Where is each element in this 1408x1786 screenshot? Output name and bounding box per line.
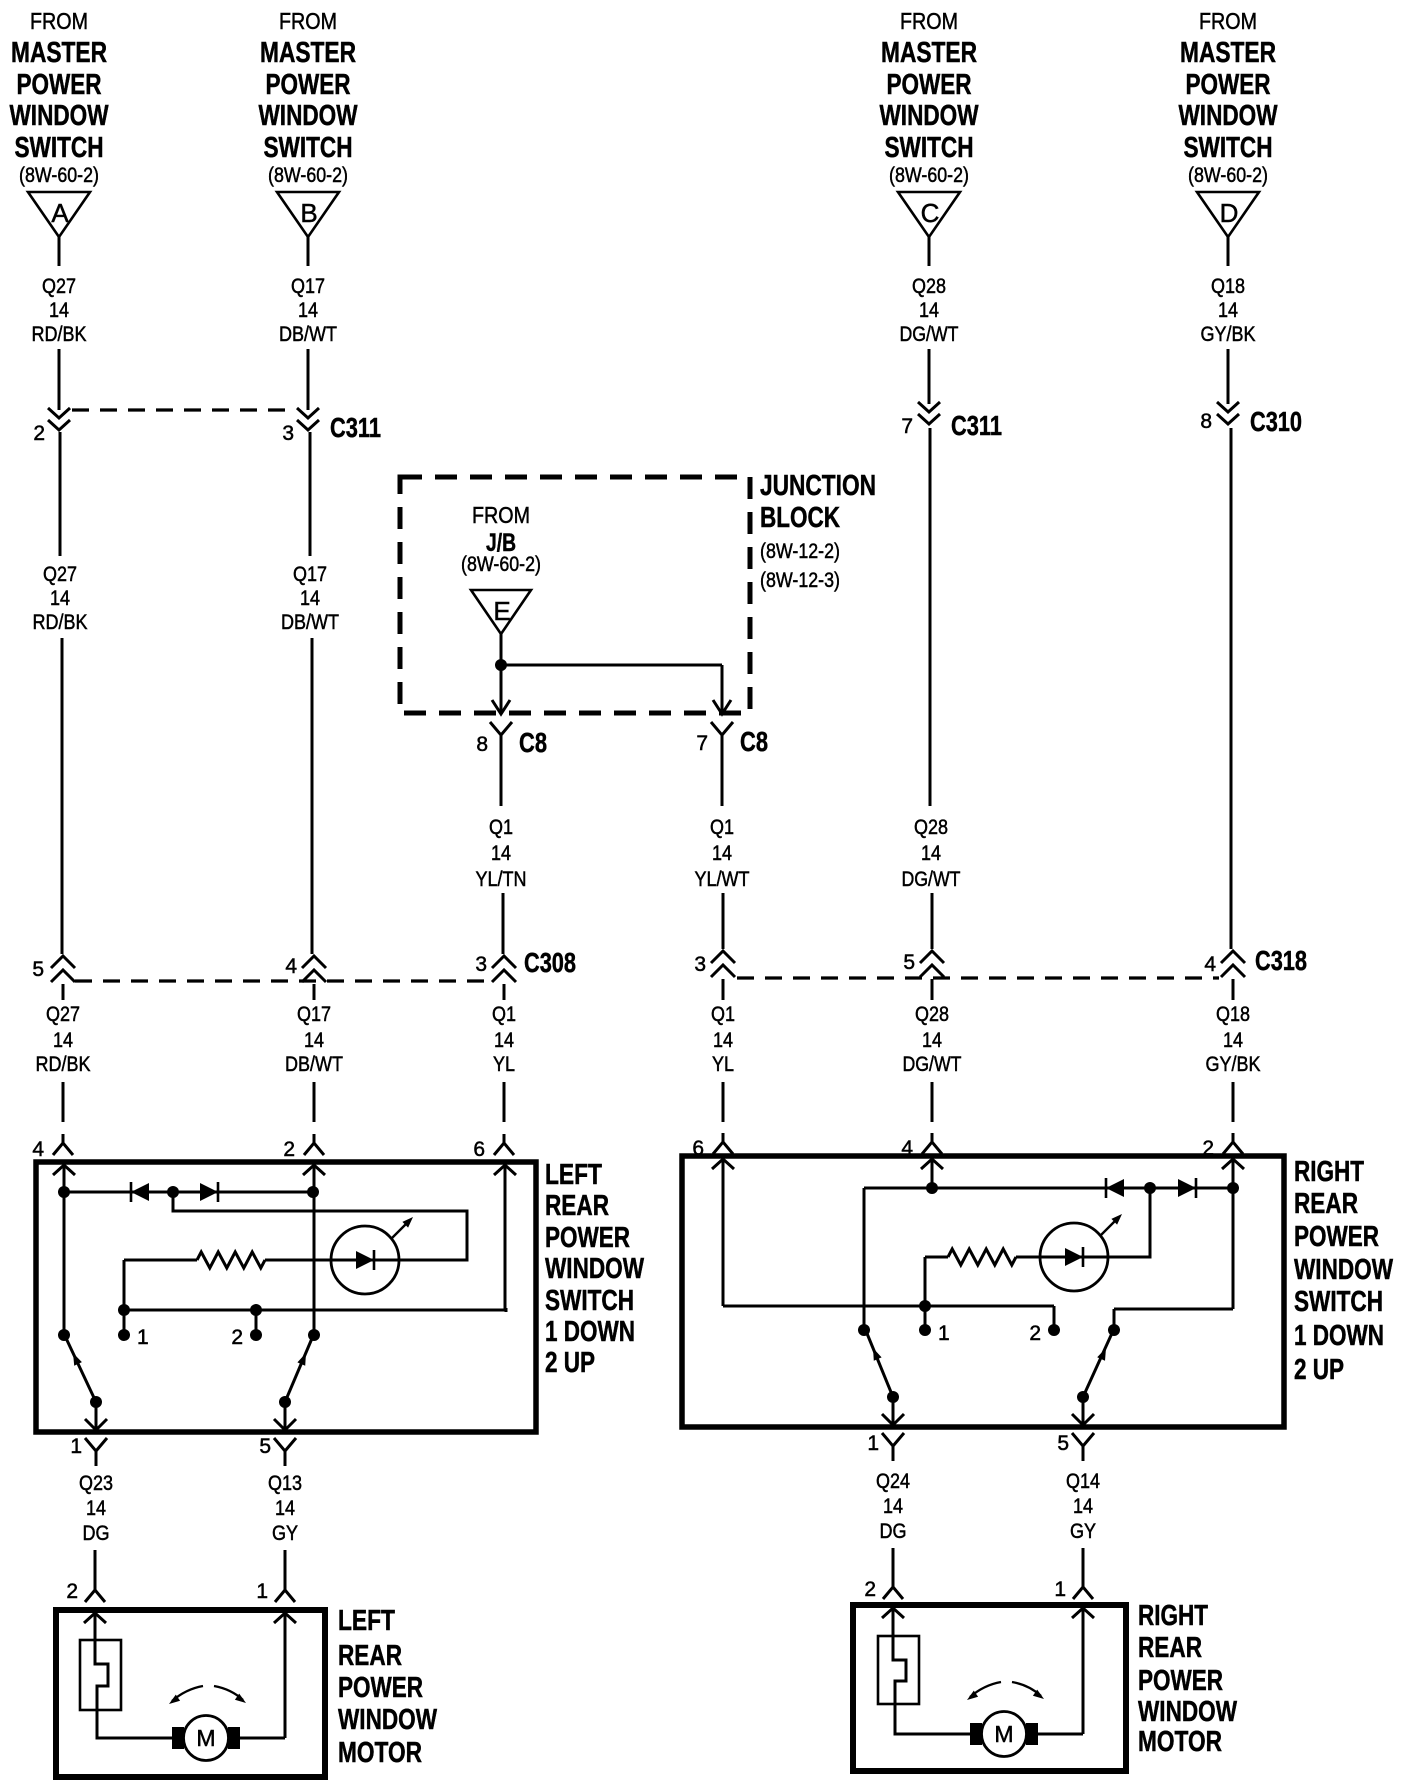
svg-text:DG: DG	[880, 1520, 907, 1543]
svg-text:B: B	[300, 198, 317, 228]
arrow into switch at x=314	[303, 1165, 325, 1175]
svg-text:WINDOW: WINDOW	[1179, 100, 1278, 132]
label RIGHT REAR POWER WINDOW SWITCH 1 DOWN 2 UP	[1294, 1156, 1393, 1386]
connector pin 5 below right switch	[1057, 1432, 1094, 1461]
switch pivot dot up (right)	[1108, 1324, 1120, 1336]
svg-text:Q13: Q13	[268, 1472, 302, 1495]
label Q1 14 YL	[492, 1003, 516, 1076]
svg-text:14: 14	[921, 842, 941, 865]
svg-text:RIGHT: RIGHT	[1138, 1600, 1208, 1632]
arrow into switch at x=505	[494, 1165, 516, 1175]
circuit breaker CB1 outline	[80, 1640, 121, 1710]
contact 2 dot	[250, 1329, 262, 1341]
svg-text:14: 14	[1223, 1029, 1243, 1052]
off-page connector triangle B	[277, 192, 339, 237]
junction block dashed outline	[400, 477, 750, 713]
svg-text:(8W-60-2): (8W-60-2)	[19, 164, 99, 187]
svg-text:FROM: FROM	[1199, 8, 1257, 34]
svg-text:WINDOW: WINDOW	[1138, 1696, 1237, 1728]
motor pin 2 connector	[66, 1580, 105, 1603]
contact bus wire (right)	[723, 1305, 1054, 1308]
svg-text:C: C	[921, 198, 940, 228]
wire pin2 vertical (right)	[1232, 1161, 1235, 1309]
right motor pin 1 connector	[1054, 1578, 1093, 1601]
svg-text:M: M	[196, 1725, 215, 1751]
connector pin 1 below right switch	[867, 1432, 904, 1461]
svg-text:MOTOR: MOTOR	[1138, 1726, 1222, 1758]
contact 1 stub (right)	[924, 1306, 927, 1326]
wire Q28 below connector	[931, 979, 934, 1000]
diode D1 (pointing left)	[131, 1182, 149, 1202]
arm dot S1	[90, 1396, 102, 1408]
svg-text:4: 4	[285, 955, 297, 978]
wire motor to pin 1	[240, 1737, 285, 1740]
arrow out of box pin 5	[274, 1419, 296, 1430]
svg-text:Q1: Q1	[711, 1003, 735, 1026]
switch pivot dot down (right)	[858, 1324, 870, 1336]
svg-text:14: 14	[491, 842, 511, 865]
motor pin 1 connector	[256, 1580, 295, 1603]
svg-text:Q1: Q1	[710, 816, 734, 839]
svg-text:14: 14	[494, 1029, 514, 1052]
svg-text:DG/WT: DG/WT	[900, 323, 959, 346]
svg-text:YL/WT: YL/WT	[695, 868, 750, 891]
svg-text:Q24: Q24	[876, 1470, 910, 1493]
resistor R2	[948, 1249, 1016, 1265]
svg-text:POWER: POWER	[887, 69, 972, 101]
arrow into right switch at x=723	[712, 1159, 734, 1169]
wire Q18 to switch pin 2	[1232, 1082, 1235, 1122]
wire resistor right lead	[1016, 1256, 1040, 1259]
diode D4 (pointing right)	[1178, 1178, 1196, 1198]
svg-text:3: 3	[694, 953, 706, 976]
motor M2 body	[982, 1712, 1027, 1757]
wire pin4 vertical (right)	[931, 1161, 934, 1188]
svg-text:WINDOW: WINDOW	[259, 100, 358, 132]
svg-text:YL: YL	[493, 1053, 515, 1076]
label Q14 14 GY	[1066, 1470, 1100, 1543]
label Q28 14 DG/WT	[902, 816, 961, 891]
svg-text:4: 4	[1204, 953, 1216, 976]
wire S2 to pin 5	[284, 1402, 287, 1430]
svg-text:A: A	[51, 198, 69, 228]
svg-text:(8W-60-2): (8W-60-2)	[461, 553, 541, 576]
wire node to C8 pin 7	[501, 664, 722, 667]
svg-text:FROM: FROM	[30, 8, 88, 34]
wire Q28 below C311	[929, 428, 932, 806]
wire Q24 to motor	[892, 1548, 895, 1578]
svg-text:14: 14	[712, 842, 732, 865]
svg-text:LEFT: LEFT	[545, 1159, 602, 1191]
svg-text:SWITCH: SWITCH	[15, 132, 104, 164]
connector C308 pin 4	[285, 955, 326, 982]
junction dot contact 2	[250, 1304, 262, 1316]
switch arm S2 (up)	[285, 1336, 313, 1402]
indicator lamp circle (right)	[1040, 1223, 1108, 1291]
svg-text:Q27: Q27	[42, 275, 76, 298]
wire from triangle D	[1227, 237, 1230, 266]
arm dot S4	[1077, 1391, 1089, 1403]
label Q24 14 DG	[876, 1470, 910, 1543]
svg-text:14: 14	[1218, 299, 1238, 322]
arrow out of box pin 5 (right)	[1072, 1414, 1094, 1425]
svg-text:14: 14	[304, 1029, 324, 1052]
wire Q1 YL/WT	[721, 750, 724, 806]
label Q17 14 DB/WT	[279, 275, 337, 346]
wire diode node to lamp (right)	[1108, 1192, 1150, 1257]
wire pin6 vertical (right)	[722, 1161, 725, 1306]
connector pin 1 below switch	[70, 1435, 107, 1466]
svg-text:Q17: Q17	[293, 563, 327, 586]
svg-text:REAR: REAR	[545, 1190, 609, 1222]
wire Q27 below C311	[59, 432, 62, 556]
svg-text:7: 7	[901, 415, 913, 438]
svg-text:Q28: Q28	[915, 1003, 949, 1026]
svg-text:14: 14	[275, 1497, 295, 1520]
arrow into right motor box pin 2	[882, 1608, 904, 1618]
wire motor to pin 1 (right)	[1038, 1733, 1083, 1736]
svg-text:Q1: Q1	[492, 1003, 516, 1026]
svg-text:GY: GY	[272, 1522, 298, 1545]
circuit breaker element wire (right)	[893, 1609, 971, 1734]
svg-text:DG: DG	[83, 1522, 110, 1545]
junction dot contact 1	[118, 1304, 130, 1316]
svg-text:4: 4	[32, 1138, 44, 1161]
svg-text:GY: GY	[1070, 1520, 1096, 1543]
svg-text:RD/BK: RD/BK	[33, 611, 88, 634]
wire Q27 below connector	[62, 984, 65, 1000]
indicator lamp circle	[331, 1226, 399, 1294]
svg-text:DB/WT: DB/WT	[285, 1053, 343, 1076]
svg-text:Q14: Q14	[1066, 1470, 1100, 1493]
svg-text:RD/BK: RD/BK	[36, 1053, 91, 1076]
svg-text:YL: YL	[712, 1053, 734, 1076]
svg-text:C318: C318	[1255, 945, 1307, 976]
label Q27 14 RD/BK	[32, 275, 87, 346]
svg-text:REAR: REAR	[1294, 1188, 1358, 1220]
motor rotation arrows	[169, 1686, 246, 1704]
svg-text:3: 3	[475, 953, 487, 976]
connector C310 pin 8 (column D)	[1200, 402, 1302, 437]
junction dot between diodes (right)	[1144, 1182, 1156, 1194]
motor brush right (right)	[1026, 1723, 1038, 1745]
label Q1 14 YL/WT	[695, 816, 750, 891]
resistor R1	[197, 1252, 265, 1268]
svg-text:5: 5	[1057, 1432, 1069, 1455]
off-page connector triangle C	[898, 192, 960, 237]
svg-text:Q27: Q27	[46, 1003, 80, 1026]
svg-text:C310: C310	[1250, 406, 1302, 437]
svg-text:C311: C311	[330, 412, 381, 443]
wire Q17 to switch pin 2	[313, 1082, 316, 1122]
arrow out of box pin 1	[85, 1419, 107, 1430]
connector C318 pin 3	[694, 951, 735, 977]
wire from E to node	[500, 634, 503, 712]
connector C8 pin 7	[696, 722, 768, 757]
switch arm S1 (down)	[65, 1336, 96, 1402]
svg-text:Q18: Q18	[1216, 1003, 1250, 1026]
svg-text:8: 8	[1200, 410, 1212, 433]
svg-text:MOTOR: MOTOR	[338, 1737, 422, 1769]
junction dot contact 1 (right)	[919, 1300, 931, 1312]
lamp arrow (right)	[1100, 1214, 1122, 1236]
connector C311 pin 2 (column A)	[33, 408, 70, 445]
wire Q1 YL/WT to C318	[722, 893, 725, 949]
svg-text:2: 2	[66, 1580, 78, 1603]
label FROM J/B (8W-60-2)	[461, 502, 541, 576]
svg-text:1 DOWN: 1 DOWN	[545, 1316, 635, 1348]
switch pin 4 connector	[32, 1134, 73, 1161]
svg-text:SWITCH: SWITCH	[1184, 132, 1273, 164]
arrow into right switch at x=1233	[1222, 1159, 1244, 1169]
svg-text:2: 2	[283, 1138, 295, 1161]
svg-text:14: 14	[50, 587, 70, 610]
wire Q18 into connector	[1227, 349, 1230, 404]
svg-text:3: 3	[282, 422, 294, 445]
svg-text:14: 14	[713, 1029, 733, 1052]
svg-text:5: 5	[903, 951, 915, 974]
svg-text:5: 5	[259, 1435, 271, 1458]
svg-text:C308: C308	[524, 947, 576, 978]
svg-text:POWER: POWER	[1294, 1221, 1379, 1253]
wire Q1 to switch pin 6	[722, 1082, 725, 1122]
svg-text:2: 2	[1029, 1322, 1041, 1345]
wire from triangle A	[58, 237, 61, 266]
svg-text:Q17: Q17	[291, 275, 325, 298]
switch pivot dot (down side)	[58, 1329, 70, 1341]
wire pin2 jog to pivot	[1114, 1308, 1233, 1311]
svg-text:YL/TN: YL/TN	[476, 868, 527, 891]
svg-text:14: 14	[919, 299, 939, 322]
svg-text:1: 1	[938, 1322, 950, 1345]
svg-text:POWER: POWER	[338, 1672, 423, 1704]
diode D3 (pointing left)	[1106, 1178, 1124, 1198]
connector C308 pin 3	[475, 947, 576, 982]
svg-text:2 UP: 2 UP	[1294, 1354, 1344, 1386]
svg-text:SWITCH: SWITCH	[1294, 1286, 1383, 1318]
wire Q18 down to C318	[1230, 428, 1233, 949]
svg-text:(8W-60-2): (8W-60-2)	[268, 164, 348, 187]
svg-text:(8W-12-3): (8W-12-3)	[760, 569, 840, 592]
wire resistor left lead	[925, 1256, 948, 1259]
switch arm S3 (down)	[866, 1331, 893, 1397]
svg-text:C8: C8	[740, 726, 768, 757]
svg-text:REAR: REAR	[338, 1640, 402, 1672]
arm dot S3	[887, 1391, 899, 1403]
node B: FROM MASTER POWER WINDOW SWITCH (8W-60-2)	[259, 8, 358, 187]
label JUNCTION BLOCK (8W-12-2) (8W-12-3)	[760, 470, 876, 592]
motor brush left (right)	[970, 1723, 982, 1745]
svg-text:1: 1	[867, 1432, 879, 1455]
arm dot S2	[279, 1396, 291, 1408]
wire pin6 vertical	[504, 1167, 507, 1310]
lamp diode symbol (right)	[1040, 1247, 1108, 1267]
wire Q27 into connector	[58, 349, 61, 410]
svg-text:JUNCTION: JUNCTION	[760, 470, 876, 502]
label Q1 14 YL/TN	[476, 816, 527, 891]
label Q18 14 GY/BK	[1206, 1003, 1261, 1076]
dashed connector line C318	[737, 976, 1219, 979]
contact 1 dot (right)	[919, 1324, 931, 1336]
label Q13 14 GY	[268, 1472, 302, 1545]
svg-text:1 DOWN: 1 DOWN	[1294, 1320, 1384, 1352]
switch pin 2 connector	[283, 1134, 324, 1161]
svg-text:M: M	[994, 1721, 1013, 1747]
switch pivot dot (up side)	[308, 1329, 320, 1341]
svg-text:14: 14	[922, 1029, 942, 1052]
svg-text:GY/BK: GY/BK	[1206, 1053, 1261, 1076]
svg-text:2 UP: 2 UP	[545, 1347, 595, 1379]
junction node dot	[495, 659, 507, 671]
svg-text:Q17: Q17	[297, 1003, 331, 1026]
node A: FROM MASTER POWER WINDOW SWITCH (8W-60-2)	[10, 8, 109, 187]
label LEFT REAR POWER WINDOW SWITCH 1 DOWN 2 UP	[545, 1159, 644, 1379]
contact 1 dot	[118, 1329, 130, 1341]
svg-text:DB/WT: DB/WT	[281, 611, 339, 634]
off-page connector triangle E	[471, 590, 531, 634]
wire Q17 below C311	[309, 432, 312, 556]
svg-text:MASTER: MASTER	[11, 37, 107, 69]
switch pin 2 connector	[1202, 1133, 1243, 1160]
svg-text:(8W-12-2): (8W-12-2)	[760, 540, 840, 563]
wire S1 to pin 1	[95, 1402, 98, 1430]
svg-text:1: 1	[256, 1580, 268, 1603]
svg-text:POWER: POWER	[1186, 69, 1271, 101]
wire pin4 vertical	[63, 1167, 66, 1335]
connector C311 pin 7 (column C)	[901, 402, 1002, 441]
svg-text:BLOCK: BLOCK	[760, 502, 840, 534]
svg-text:RD/BK: RD/BK	[32, 323, 87, 346]
junction dot pin2 (right)	[1227, 1182, 1239, 1194]
svg-text:Q18: Q18	[1211, 275, 1245, 298]
svg-text:POWER: POWER	[266, 69, 351, 101]
wire pin2 vertical	[313, 1167, 316, 1335]
wire Q1 to switch pin 6	[503, 1082, 506, 1122]
svg-text:POWER: POWER	[17, 69, 102, 101]
svg-text:WINDOW: WINDOW	[338, 1704, 437, 1736]
wire diode node to lamp	[173, 1192, 467, 1260]
right rear power window motor box	[853, 1605, 1126, 1771]
label Q17 14 DB/WT	[281, 563, 339, 634]
wire Q23 to motor	[94, 1550, 97, 1581]
switch pin 4 connector	[901, 1133, 942, 1160]
label Q17 14 DB/WT	[285, 1003, 343, 1076]
svg-text:SWITCH: SWITCH	[545, 1285, 634, 1317]
wire Q17 down to C308	[311, 638, 314, 954]
contact 1 stub	[123, 1310, 126, 1330]
svg-text:6: 6	[473, 1138, 485, 1161]
wire resistor left lead	[124, 1259, 197, 1262]
svg-text:FROM: FROM	[472, 502, 530, 528]
right motor pin 2 connector	[864, 1578, 903, 1601]
circuit breaker element wire	[95, 1614, 173, 1738]
svg-text:MASTER: MASTER	[1180, 37, 1276, 69]
svg-text:8: 8	[476, 733, 488, 756]
dashed connector line C311 (A-B)	[72, 408, 288, 411]
wire Q27 to switch pin 4	[62, 1082, 65, 1122]
off-page connector triangle D	[1197, 192, 1259, 237]
circuit breaker CB2 outline	[878, 1636, 919, 1704]
label Q23 14 DG	[79, 1472, 113, 1545]
left rear power window motor box	[56, 1610, 325, 1777]
arrow into C8 pin 7	[713, 700, 731, 714]
junction dot pin4 (right)	[926, 1182, 938, 1194]
svg-text:14: 14	[1073, 1495, 1093, 1518]
wire Q28 into connector	[928, 349, 931, 404]
wire S4 to pin 5 (right)	[1082, 1397, 1085, 1425]
connector C311 pin 3 (column B)	[282, 408, 381, 445]
node C: FROM MASTER POWER WINDOW SWITCH (8W-60-2)	[880, 8, 979, 187]
diode bus wire (right)	[932, 1187, 1233, 1190]
svg-text:1: 1	[70, 1435, 82, 1458]
svg-text:C8: C8	[519, 727, 547, 758]
dashed connector line C308	[75, 979, 492, 982]
arrow into switch at x=64	[53, 1165, 75, 1175]
junction dot between diodes	[167, 1186, 179, 1198]
label Q18 14 GY/BK	[1201, 275, 1256, 346]
svg-text:1: 1	[1054, 1578, 1066, 1601]
wire resistor to lamp	[265, 1259, 331, 1262]
wire Q18 below connector	[1232, 979, 1235, 1000]
motor rotation arrows (right)	[967, 1682, 1044, 1700]
diode D2 (pointing right)	[200, 1182, 218, 1202]
left rear power window switch U1 box	[36, 1162, 536, 1432]
svg-text:Q28: Q28	[914, 816, 948, 839]
node D: FROM MASTER POWER WINDOW SWITCH (8W-60-2)	[1179, 8, 1278, 187]
svg-text:5: 5	[32, 958, 44, 981]
wire Q27 down to C308	[61, 638, 64, 954]
svg-text:WINDOW: WINDOW	[880, 100, 979, 132]
svg-text:(8W-60-2): (8W-60-2)	[1188, 164, 1268, 187]
svg-text:14: 14	[86, 1497, 106, 1520]
svg-text:14: 14	[49, 299, 69, 322]
connector C318 pin 5	[903, 951, 944, 977]
svg-text:Q28: Q28	[912, 275, 946, 298]
arrow into motor box pin 1	[274, 1613, 296, 1623]
motor M1 body	[184, 1716, 229, 1761]
connector pin 5 below switch	[259, 1435, 296, 1466]
svg-text:WINDOW: WINDOW	[1294, 1254, 1393, 1286]
switch pin 6 connector	[473, 1134, 514, 1161]
svg-text:Q27: Q27	[43, 563, 77, 586]
wire Q13 to motor	[284, 1550, 287, 1581]
label Q28 14 DG/WT	[903, 1003, 962, 1076]
svg-text:(8W-60-2): (8W-60-2)	[889, 164, 969, 187]
switch pin 6 connector	[692, 1133, 733, 1160]
svg-text:14: 14	[53, 1029, 73, 1052]
svg-text:SWITCH: SWITCH	[264, 132, 353, 164]
svg-text:7: 7	[696, 732, 708, 755]
wire Q28 down to C318	[931, 893, 934, 949]
svg-text:POWER: POWER	[1138, 1665, 1223, 1697]
wire Q1 below connector	[503, 984, 506, 1000]
motor brush right	[228, 1727, 240, 1749]
arrow into right switch at x=932	[921, 1159, 943, 1169]
connector C318 pin 4	[1204, 945, 1307, 977]
svg-text:FROM: FROM	[900, 8, 958, 34]
diode bus wire	[64, 1191, 313, 1194]
right rear power window switch U2 box	[682, 1156, 1284, 1427]
label Q28 14 DG/WT	[900, 275, 959, 346]
label Q1 14 YL	[711, 1003, 735, 1076]
lamp arrow	[391, 1217, 413, 1239]
svg-text:E: E	[493, 596, 510, 626]
switch arm S4 (up)	[1083, 1331, 1113, 1397]
svg-text:14: 14	[300, 587, 320, 610]
svg-text:DG/WT: DG/WT	[903, 1053, 962, 1076]
wire Q17 into connector	[307, 349, 310, 410]
svg-text:14: 14	[298, 299, 318, 322]
